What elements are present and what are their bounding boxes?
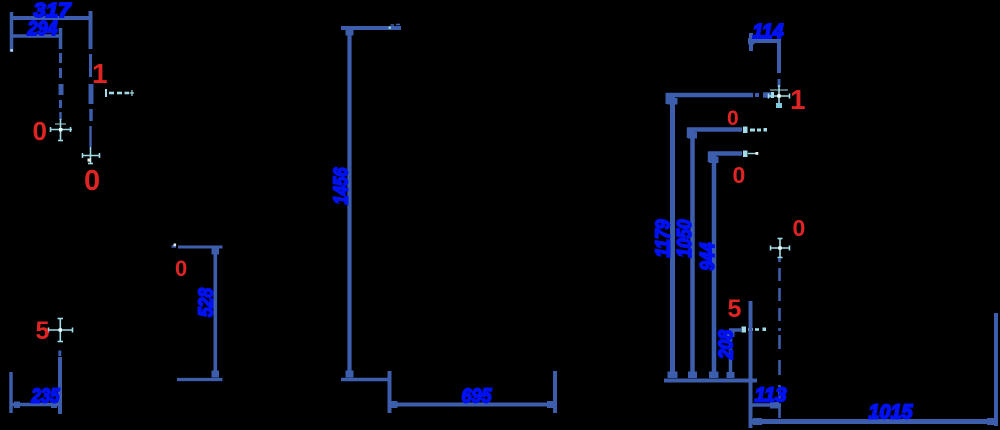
svg-text:235: 235 (31, 386, 61, 408)
dimension 528: arrow tick blobs (212, 248, 220, 255)
dimension 1179: arrow tick blobs (668, 98, 678, 105)
dimension 208: vertical dimension line (729, 330, 733, 378)
dimension 1456: arrow tick blobs (346, 29, 354, 36)
dimension 944 (right group inner): top extension line (708, 151, 742, 156)
dimension 114: arrow tick blob left (748, 38, 755, 45)
svg-text:5: 5 (728, 295, 742, 323)
svg-text:0: 0 (33, 116, 47, 146)
point marker 5 (cross) at 60,330 (48, 318, 73, 342)
dimension 1050: cyan dashed end toward point (743, 127, 767, 134)
dimension 1179: dashed end of dimension line toward point 1 (755, 93, 759, 97)
dimension 1456: bottom extension line (341, 378, 388, 382)
svg-text:208: 208 (716, 329, 738, 360)
dimension 1456: small tick marks near right end of top extension (391, 24, 395, 26)
cyan dashed marker row at y=93 (106, 89, 134, 97)
dimension 235 (bottom-left): left extension line (9, 372, 13, 413)
dimension 695: dimension line (389, 403, 555, 407)
svg-text:944: 944 (697, 243, 719, 271)
dimension 114: dashed continuation toward point 1 (778, 79, 781, 87)
point marker 1 (cross) at 779,96 (768, 85, 790, 108)
shared bottom extension line of right group (664, 379, 757, 383)
dimension 235: small dash above right extension (58, 351, 61, 357)
svg-text:5: 5 (36, 317, 50, 345)
point marker 0 (cross) at 60.5,129 (50, 119, 72, 141)
point marker 0b (cross) at 90.5,155 (82, 147, 100, 164)
dimension 1015: dimension line (750, 419, 996, 424)
svg-text:0: 0 (727, 107, 739, 130)
dimension 114 (top-right): dimension line (750, 39, 780, 43)
dimension 528: detached dash + white point at left end (172, 245, 177, 248)
dimension 114: left extension line (749, 33, 753, 51)
svg-text:294: 294 (27, 18, 58, 40)
dimension 1456: vertical dimension line (347, 28, 351, 377)
point marker 0c (cross) at 780,248 (770, 238, 790, 258)
dimension 114: right extension line solid going down (777, 36, 781, 73)
dimension 235: right extension line (58, 357, 62, 414)
svg-text:0: 0 (84, 165, 100, 197)
dimension 1015: arrow tick blobs (753, 418, 762, 425)
dimension 317: dimension line (10, 16, 91, 20)
dimension 1456: cyan dot on top extension (389, 27, 391, 29)
dimension 317: right extension line (solid part) (89, 11, 93, 49)
long left extension line (shared by 113 and 1015) (749, 301, 753, 428)
dimension 528: bottom extension line (177, 378, 223, 381)
dimension 294: right extension dashed segments going down (59, 53, 62, 63)
dimension 695 (bottom-center): left extension line (388, 371, 392, 413)
dimension 235: arrow tick blobs (14, 402, 20, 409)
dimension 1050: corner riser (687, 128, 692, 138)
svg-text:113: 113 (755, 385, 787, 407)
dimension 695: arrow tick blobs (389, 401, 398, 408)
svg-text:0: 0 (733, 162, 746, 188)
dimension 695: right extension line (553, 371, 557, 413)
dimension 294: right extension line (solid part) (59, 28, 63, 49)
dimension 1179: cyan tick at dashed end (771, 92, 774, 98)
svg-text:1: 1 (92, 58, 108, 89)
dimension 528: vertical dimension line (214, 248, 218, 377)
dimension 944: cyan arrow tick and thin leader with end point (743, 151, 758, 158)
dimension 1179: corner riser (666, 93, 671, 104)
dimension 235: dimension line (11, 403, 61, 407)
dimension 1456 (center tall vertical): top extension line (341, 26, 401, 30)
dimension 113: dimension line (751, 403, 781, 407)
svg-text:1456: 1456 (330, 167, 352, 205)
dimension 113: arrow tick blob right (770, 402, 779, 409)
dashed extension line from point 0c down to bottom dimension (778, 258, 781, 418)
dimension 235: white speck on left extension (10, 377, 12, 379)
dimension 317: right extension dashed segments going down (89, 54, 92, 77)
svg-text:1050: 1050 (674, 220, 696, 258)
dimension 944: vertical dimension line (712, 153, 717, 378)
svg-text:1179: 1179 (653, 219, 675, 258)
dimension 1179: vertical dimension line (670, 95, 675, 378)
svg-text:695: 695 (462, 386, 493, 408)
svg-text:0: 0 (175, 256, 187, 281)
dimension 208: arrow tick blobs (727, 331, 735, 337)
dimension 1179 (right group outer): top extension line (666, 93, 753, 98)
dimension 944: arrow tick blobs (709, 157, 719, 164)
dimension 1050 (right group middle): top extension line (687, 127, 742, 132)
svg-text:1015: 1015 (869, 402, 914, 424)
dimension 944: corner riser (708, 152, 713, 162)
svg-text:1: 1 (790, 84, 806, 115)
dimension 208 (small bottom-right vertical): top extension line (729, 328, 741, 332)
dimension 1050: arrow tick blobs (688, 132, 697, 139)
dimension 1015: right extension line (994, 313, 998, 426)
dimension 317: left extension line (10, 12, 14, 52)
dimension 208: cyan dashed end (742, 327, 767, 333)
svg-text:114: 114 (753, 21, 784, 43)
dimension 528 (left-middle vertical): top extension line (178, 246, 223, 249)
svg-text:0: 0 (793, 215, 806, 241)
svg-text:528: 528 (196, 287, 218, 317)
dimension 1050: vertical dimension line (690, 129, 695, 378)
dimension 294: dimension line (11, 34, 61, 38)
